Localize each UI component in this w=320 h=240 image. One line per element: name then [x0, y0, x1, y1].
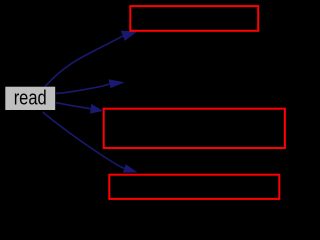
- node top box: [130, 6, 258, 31]
- node bottom box: [109, 175, 279, 199]
- node read: [5, 87, 55, 110]
- edge read->middle box: [56, 103, 103, 114]
- edge read->top box: [45, 31, 138, 87]
- svg-text:read: read: [14, 88, 47, 110]
- edge read->bottom box: [43, 112, 138, 173]
- edge read->hidden node: [56, 79, 125, 93]
- node middle box: [104, 109, 285, 148]
